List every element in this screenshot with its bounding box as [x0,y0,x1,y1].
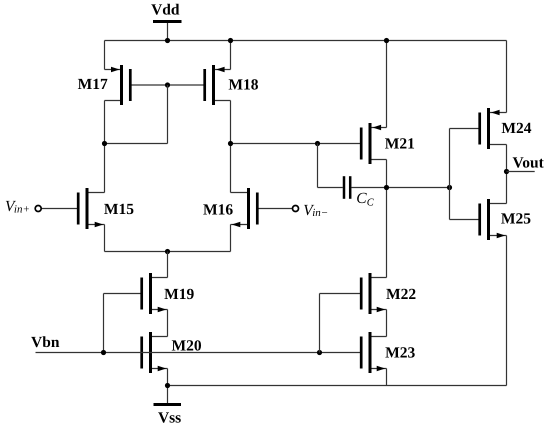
svg-text:M16: M16 [203,201,233,218]
svg-text:M20: M20 [172,337,202,354]
svg-text:in−: in− [312,207,328,219]
svg-text:Vdd: Vdd [151,1,180,18]
svg-text:M19: M19 [164,286,194,303]
svg-text:C: C [356,190,367,207]
svg-text:Vout: Vout [513,155,545,172]
svg-text:Vss: Vss [158,409,181,426]
svg-text:Vbn: Vbn [31,334,60,351]
svg-text:M25: M25 [501,211,531,228]
svg-text:C: C [367,197,375,208]
svg-text:M24: M24 [501,120,531,137]
svg-text:M23: M23 [385,345,415,362]
svg-text:M15: M15 [104,201,134,218]
svg-text:M17: M17 [78,76,108,93]
svg-text:M22: M22 [386,286,416,303]
svg-text:in+: in+ [14,203,30,215]
svg-text:M18: M18 [228,76,258,93]
svg-text:M21: M21 [385,136,415,153]
